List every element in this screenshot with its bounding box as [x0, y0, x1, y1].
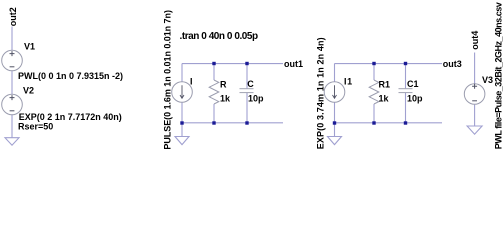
svg-text:R: R: [220, 80, 227, 90]
svg-text:V1: V1: [24, 42, 35, 52]
svg-text:.tran 0 40n 0 0.05p: .tran 0 40n 0 0.05p: [180, 31, 259, 42]
svg-text:EXP(0 3.74m 1n 1n 2n 4n): EXP(0 3.74m 1n 1n 2n 4n): [315, 37, 325, 149]
svg-text:1k: 1k: [379, 93, 390, 103]
svg-text:C: C: [247, 79, 254, 89]
svg-text:V2: V2: [23, 86, 34, 96]
svg-text:out3: out3: [443, 59, 462, 69]
svg-text:V3: V3: [482, 75, 493, 85]
svg-text:PULSE(0 1.6m 1n 0.01n 0.01n 7n: PULSE(0 1.6m 1n 0.01n 0.01n 7n): [163, 10, 173, 150]
svg-text:out4: out4: [470, 31, 480, 50]
svg-text:C1: C1: [407, 79, 419, 89]
svg-text:I1: I1: [344, 77, 353, 87]
svg-text:PWL(0 0 1n 0 7.9315n -2): PWL(0 0 1n 0 7.9315n -2): [18, 71, 123, 81]
svg-text:1k: 1k: [220, 93, 231, 103]
svg-text:out2: out2: [8, 7, 18, 26]
svg-text:R1: R1: [379, 80, 391, 90]
svg-text:PWL file=Pulse_32Bit_2GHz_40ns: PWL file=Pulse_32Bit_2GHz_40ns.csv: [494, 2, 504, 149]
svg-text:I: I: [190, 77, 193, 87]
svg-text:10p: 10p: [407, 93, 423, 103]
svg-text:out1: out1: [284, 59, 303, 69]
svg-text:Rser=50: Rser=50: [18, 121, 53, 131]
svg-text:10p: 10p: [248, 93, 264, 103]
